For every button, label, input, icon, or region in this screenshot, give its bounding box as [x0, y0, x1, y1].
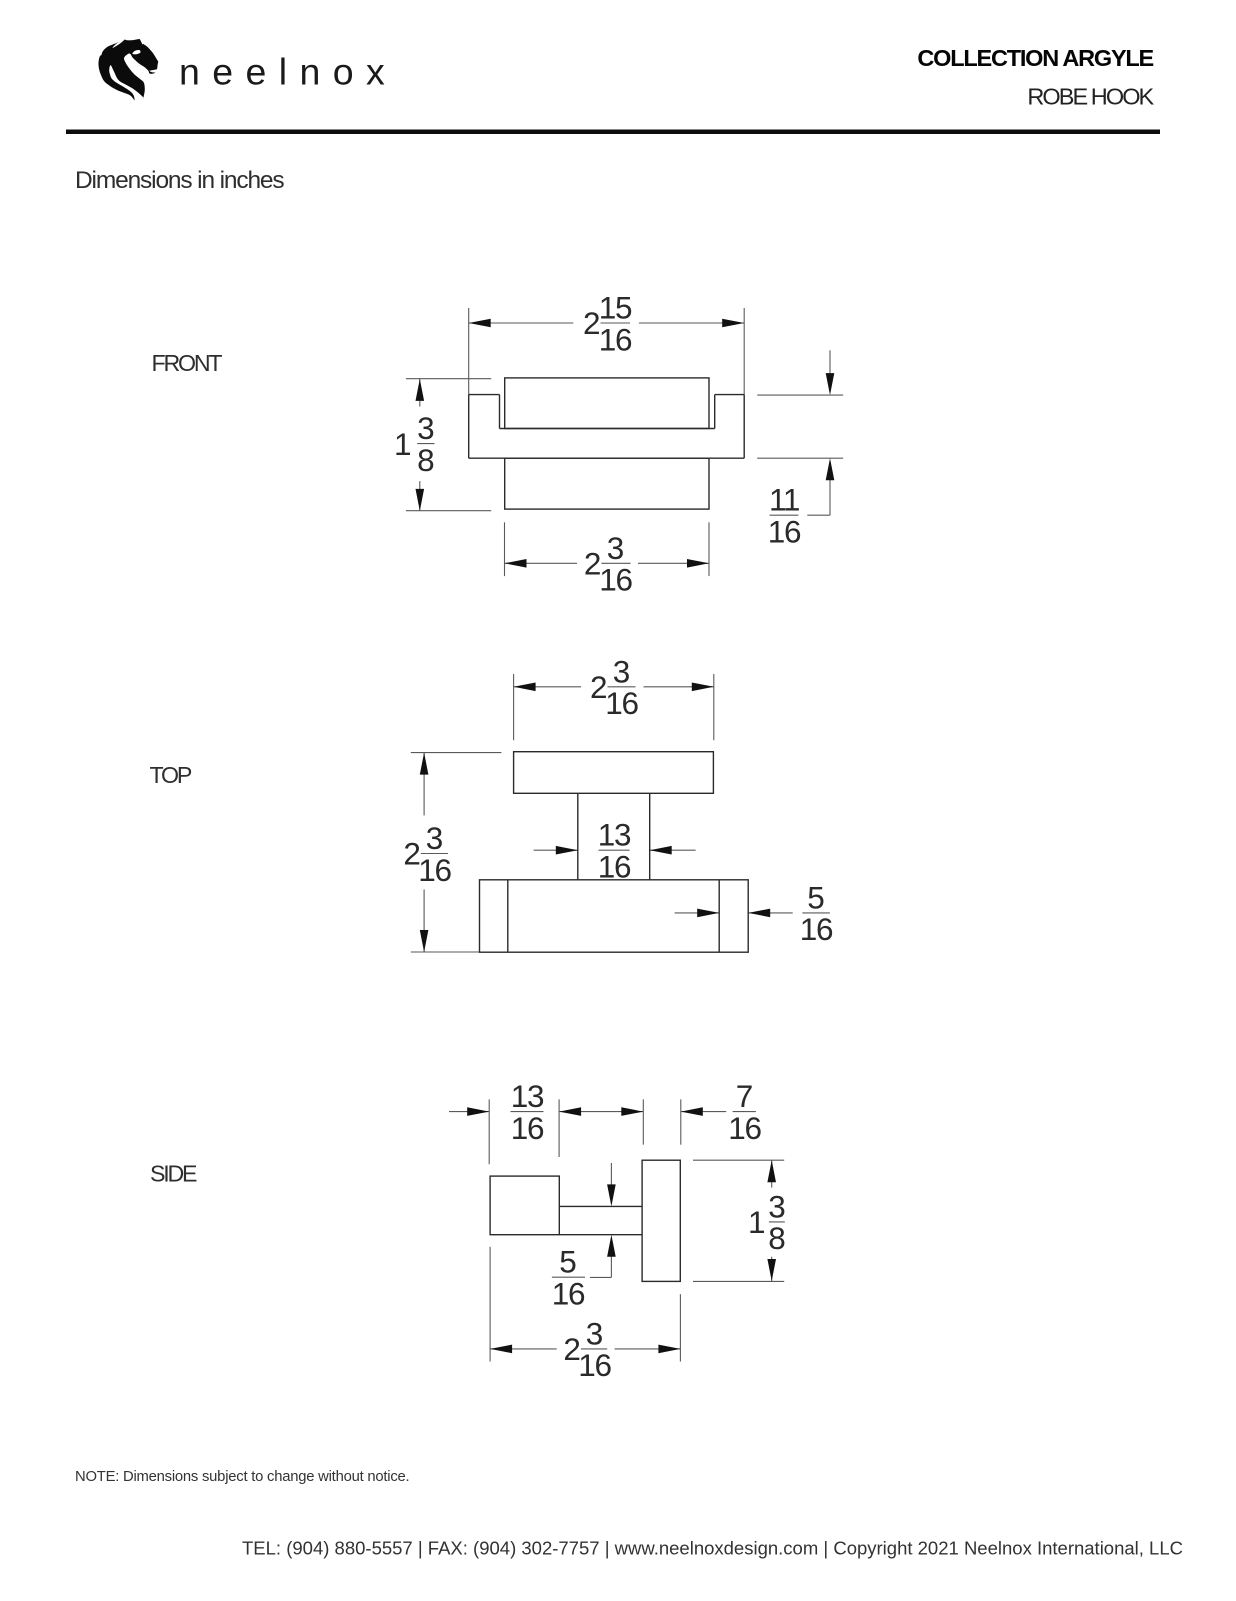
svg-text:16: 16 [578, 1347, 611, 1383]
svg-text:COLLECTION ARGYLE: COLLECTION ARGYLE [917, 45, 1153, 71]
svg-text:1: 1 [748, 1204, 766, 1240]
svg-text:1: 1 [394, 426, 412, 462]
svg-text:2: 2 [584, 546, 602, 582]
svg-text:8: 8 [768, 1220, 786, 1256]
svg-text:2: 2 [583, 305, 601, 341]
svg-text:FRONT: FRONT [152, 350, 223, 376]
svg-text:16: 16 [768, 514, 801, 550]
svg-text:16: 16 [418, 852, 451, 888]
svg-text:3: 3 [607, 530, 625, 566]
svg-text:Dimensions in inches: Dimensions in inches [75, 167, 284, 194]
svg-text:16: 16 [552, 1276, 585, 1312]
svg-text:neelnox: neelnox [179, 51, 397, 93]
svg-text:7: 7 [736, 1078, 754, 1114]
svg-text:16: 16 [800, 911, 833, 947]
svg-text:16: 16 [605, 685, 638, 721]
svg-text:13: 13 [598, 817, 631, 853]
svg-text:13: 13 [511, 1078, 544, 1114]
svg-text:3: 3 [768, 1188, 786, 1224]
svg-text:2: 2 [590, 669, 608, 705]
svg-text:ROBE HOOK: ROBE HOOK [1027, 84, 1154, 110]
svg-text:8: 8 [417, 442, 435, 478]
svg-text:16: 16 [598, 849, 631, 885]
svg-text:NOTE: Dimensions subject to ch: NOTE: Dimensions subject to change witho… [75, 1469, 409, 1485]
svg-text:3: 3 [417, 410, 435, 446]
svg-text:SIDE: SIDE [150, 1160, 197, 1186]
svg-text:TOP: TOP [150, 762, 192, 788]
svg-text:3: 3 [586, 1315, 604, 1351]
svg-text:2: 2 [403, 836, 421, 872]
svg-text:15: 15 [599, 290, 632, 326]
svg-text:16: 16 [511, 1110, 544, 1146]
svg-text:2: 2 [563, 1331, 581, 1367]
svg-text:5: 5 [807, 879, 825, 915]
svg-text:3: 3 [426, 820, 444, 856]
svg-text:5: 5 [559, 1244, 577, 1280]
svg-text:11: 11 [769, 482, 799, 518]
svg-text:16: 16 [599, 562, 632, 598]
svg-text:16: 16 [728, 1110, 761, 1146]
svg-text:3: 3 [613, 653, 631, 689]
svg-text:16: 16 [599, 321, 632, 357]
svg-text:TEL: (904) 880-5557 | FAX: (90: TEL: (904) 880-5557 | FAX: (904) 302-775… [242, 1538, 1183, 1559]
